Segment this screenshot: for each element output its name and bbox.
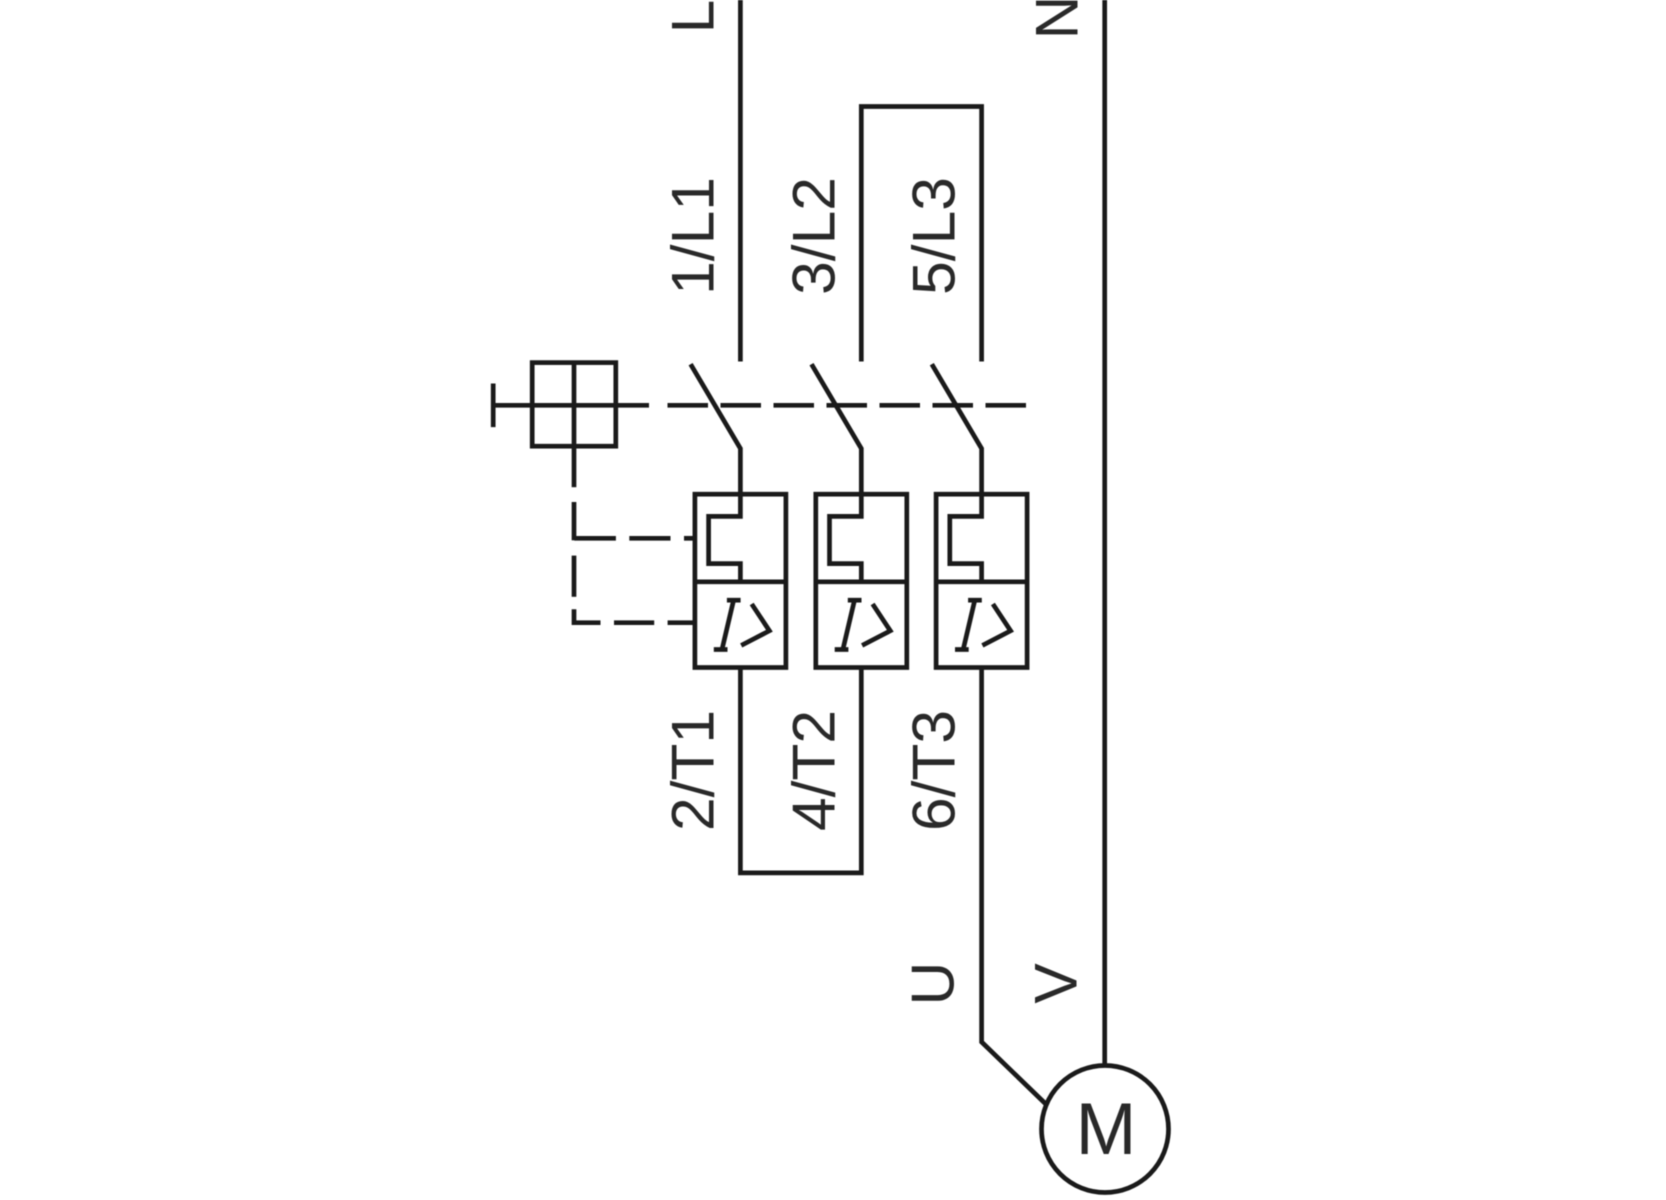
svg-text:N: N [1022,0,1090,39]
svg-text:1/L1: 1/L1 [658,177,726,295]
svg-text:4/T2: 4/T2 [779,710,847,831]
svg-text:2/T1: 2/T1 [658,710,726,831]
svg-text:L: L [658,0,726,33]
svg-text:5/L3: 5/L3 [900,177,968,295]
svg-text:V: V [1021,963,1089,1004]
svg-text:3/L2: 3/L2 [779,177,847,295]
svg-text:6/T3: 6/T3 [900,710,968,831]
svg-text:U: U [898,962,966,1006]
svg-text:M: M [1076,1089,1137,1170]
